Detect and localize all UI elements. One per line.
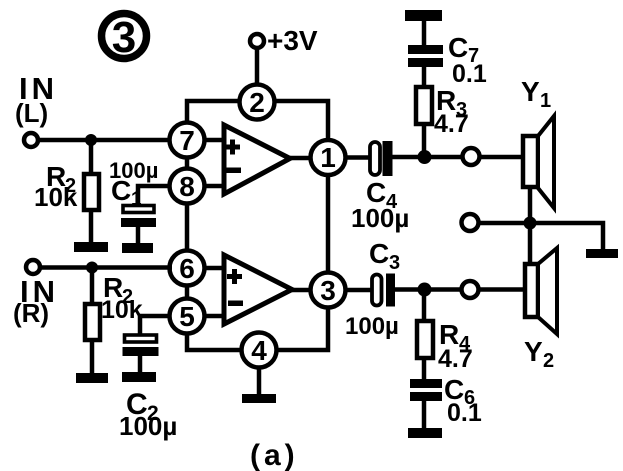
wire pin 3 to C3 xyxy=(346,288,372,293)
svg-text:(L): (L) xyxy=(15,98,48,128)
svg-text:3: 3 xyxy=(112,13,136,62)
supply rail bar above C7 xyxy=(405,10,442,21)
label C3 100u xyxy=(345,238,400,340)
op-amp U1 (left channel) xyxy=(205,125,312,194)
svg-text:2: 2 xyxy=(543,350,554,372)
node junction at IN(L)/R2 xyxy=(85,134,97,146)
IC package outline xyxy=(187,101,328,350)
label R4 4.7 xyxy=(438,319,473,373)
label R2 10k (left) xyxy=(34,161,78,212)
svg-text:7: 7 xyxy=(179,125,195,156)
speaker Y2 xyxy=(525,248,557,334)
svg-text:4.7: 4.7 xyxy=(434,110,469,138)
pin 5 xyxy=(170,299,205,334)
wire Y1 to common junction xyxy=(528,188,533,224)
label R3 4.7 xyxy=(434,85,469,138)
label Y2 xyxy=(524,336,554,372)
pin 8 xyxy=(170,169,205,204)
svg-text:4.7: 4.7 xyxy=(438,345,473,373)
capacitor C1 100u xyxy=(121,206,156,245)
capacitor C2 100u xyxy=(123,335,159,373)
pin 6 xyxy=(170,251,205,286)
wire junction to speaker Y2 xyxy=(528,223,533,266)
label (a) xyxy=(250,439,299,471)
svg-text:6: 6 xyxy=(179,253,195,284)
figure number 3 (circled) xyxy=(102,13,147,62)
svg-text:4: 4 xyxy=(251,335,267,366)
wire +3V to pin 2 xyxy=(255,46,260,86)
output terminal L xyxy=(463,148,480,165)
svg-text:Y: Y xyxy=(524,336,543,367)
pin 1 xyxy=(311,140,346,175)
svg-text:C: C xyxy=(111,175,131,206)
node junction C3/R4 xyxy=(418,283,432,297)
svg-text:1: 1 xyxy=(320,142,336,173)
resistor R2 (left channel) xyxy=(84,140,99,244)
svg-text:C: C xyxy=(369,238,389,269)
resistor R4 xyxy=(417,289,433,380)
wire common terminal to junction and ground xyxy=(478,223,603,251)
label +3V xyxy=(267,25,318,56)
svg-text:10k: 10k xyxy=(101,296,143,324)
ground under pin 4 xyxy=(242,368,276,403)
pin 4 xyxy=(242,333,277,368)
svg-text:3: 3 xyxy=(320,275,336,306)
wire C3 to terminal R xyxy=(395,287,462,292)
svg-text:C: C xyxy=(448,32,468,63)
svg-text:1: 1 xyxy=(540,90,551,112)
svg-text:3: 3 xyxy=(389,252,400,274)
svg-text:10k: 10k xyxy=(34,182,78,212)
svg-text:1: 1 xyxy=(131,189,142,210)
label C4 100u xyxy=(351,177,409,233)
ground under C1 xyxy=(122,243,153,253)
label 100u C1 xyxy=(109,158,158,210)
capacitor C4 100u xyxy=(370,141,393,176)
capacitor C7 0.1 xyxy=(408,20,443,67)
ground under C2 xyxy=(122,372,156,382)
wire C4 to terminal xyxy=(392,155,462,160)
pin 3 xyxy=(311,273,346,308)
svg-text:8: 8 xyxy=(179,171,195,202)
label C2 100u xyxy=(119,388,177,441)
label Y1 xyxy=(521,76,551,112)
svg-text:0.1: 0.1 xyxy=(452,60,487,88)
wire IN(L) to pin 7 xyxy=(38,138,172,143)
speaker Y1 xyxy=(523,116,554,208)
resistor R3 xyxy=(416,64,432,157)
output terminal R xyxy=(462,281,479,298)
label C7 0.1 xyxy=(448,32,487,88)
wire pin 8 to C1 xyxy=(138,186,170,207)
svg-text:(R): (R) xyxy=(13,298,49,328)
node junction at IN(R)/R2 xyxy=(86,262,98,274)
wire pin 5 to C2 xyxy=(140,316,170,337)
wire pin 1 to C4 xyxy=(346,155,370,160)
wire terminal to speaker Y1 xyxy=(479,155,524,160)
pin 7 xyxy=(170,123,205,158)
capacitor C3 100u xyxy=(372,274,395,307)
svg-text:100µ: 100µ xyxy=(345,313,399,340)
svg-text:100µ: 100µ xyxy=(119,411,177,441)
resistor R2 (right channel) xyxy=(85,267,100,374)
svg-text:+3V: +3V xyxy=(267,25,318,56)
wire IN(R) to pin 6 xyxy=(40,265,172,270)
svg-text:100µ: 100µ xyxy=(351,203,409,233)
label IN (L) xyxy=(15,71,58,128)
wire terminal R to speaker Y2 xyxy=(478,287,526,292)
svg-text:5: 5 xyxy=(179,301,195,332)
svg-text:Y: Y xyxy=(521,76,540,107)
common terminal xyxy=(462,214,479,231)
node junction speaker common xyxy=(524,217,537,230)
input terminal IN(R) xyxy=(26,260,40,274)
label R2 10k (right) xyxy=(101,272,143,324)
op-amp U2 (right channel) xyxy=(205,255,312,324)
svg-text:0.1: 0.1 xyxy=(447,399,482,427)
label IN (R) xyxy=(13,274,59,328)
ground under R2 (right) xyxy=(76,373,108,383)
svg-text:2: 2 xyxy=(249,87,265,118)
input terminal IN(L) xyxy=(24,133,38,147)
ground under R2 (left) xyxy=(74,242,108,252)
ground at speaker common xyxy=(586,249,618,258)
label C6 0.1 xyxy=(444,374,482,427)
terminal +3V xyxy=(250,34,264,48)
pin 2 xyxy=(240,85,275,120)
ground under C6 xyxy=(408,428,442,438)
node junction C4/R3 xyxy=(418,150,432,164)
svg-text:(a): (a) xyxy=(250,439,299,471)
capacitor C6 0.1 xyxy=(410,379,442,429)
